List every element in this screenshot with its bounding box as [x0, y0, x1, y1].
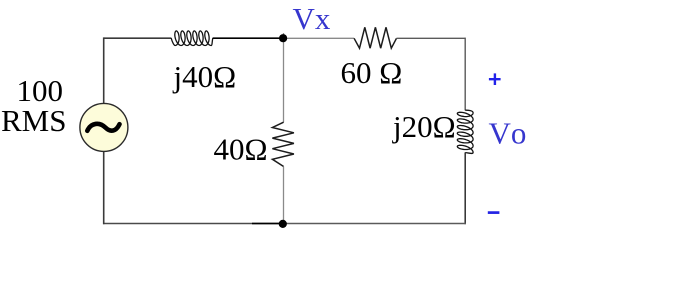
- wire middle vertical upper (Vx node to resistor 40): [283, 33, 285, 122]
- wire left vertical lower (source bottom to bottom corner): [103, 151, 105, 224]
- svg-text:Vx: Vx: [293, 1, 331, 36]
- svg-text:RMS: RMS: [1, 103, 66, 138]
- wire middle vertical lower (resistor 40 to bottom node): [283, 167, 285, 224]
- inductor L1 j40 coil: [171, 31, 213, 46]
- resistor R2 40ohm zigzag: [272, 122, 294, 166]
- wire node Vx to resistor 60: [284, 37, 355, 39]
- node Vx junction dot: [279, 34, 287, 42]
- wire bottom right (corner to node): [284, 223, 466, 225]
- svg-text:60 Ω: 60 Ω: [341, 55, 403, 90]
- wire bottom left (node to left corner): [103, 223, 252, 225]
- wire top-left horizontal (source to inductor): [104, 37, 172, 39]
- wire bottom black segment left of node: [252, 223, 284, 225]
- wire right vertical upper (corner to j20 coil): [464, 38, 466, 111]
- svg-text:j20Ω: j20Ω: [392, 109, 456, 144]
- inductor L2 j20 coil: [457, 110, 473, 153]
- svg-text:40Ω: 40Ω: [214, 131, 268, 166]
- wire j20 coil to bottom-right corner: [464, 152, 466, 224]
- plus sign: [489, 73, 501, 85]
- wire inductor to node Vx (black): [213, 37, 284, 39]
- minus sign: [488, 211, 500, 214]
- source sine tilde: [87, 124, 119, 131]
- svg-text:j40Ω: j40Ω: [173, 59, 237, 94]
- resistor R1 60ohm zigzag: [354, 27, 396, 48]
- wire left vertical upper (top corner to source top): [103, 37, 105, 103]
- bottom junction dot: [279, 220, 287, 228]
- source V1 circle: [80, 103, 128, 151]
- wire resistor 60 to top-right corner: [397, 37, 466, 39]
- svg-text:Vo: Vo: [489, 116, 527, 151]
